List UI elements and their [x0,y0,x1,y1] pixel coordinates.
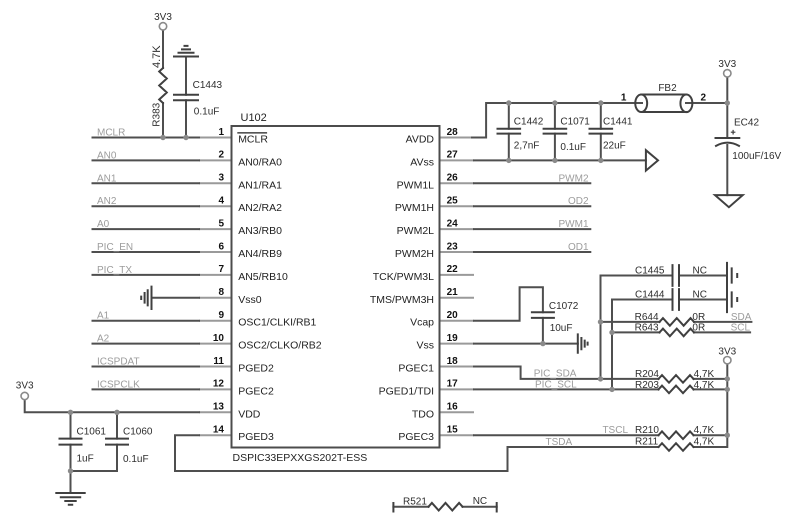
svg-text:AN0/RA0: AN0/RA0 [238,156,282,168]
svg-text:PGEC3: PGEC3 [398,431,434,443]
svg-text:15: 15 [447,425,459,436]
svg-text:16: 16 [447,402,459,413]
svg-text:C1445: C1445 [635,266,665,277]
svg-text:19: 19 [447,333,459,344]
svg-text:3V3: 3V3 [16,381,34,392]
svg-text:TDO: TDO [412,408,434,420]
svg-text:100uF/16V: 100uF/16V [732,151,781,162]
svg-text:Vcap: Vcap [410,317,434,329]
svg-text:11: 11 [213,356,224,367]
svg-text:PGED1/TDI: PGED1/TDI [379,385,434,397]
svg-text:EC42: EC42 [734,118,759,129]
svg-text:17: 17 [447,379,459,390]
svg-text:TCK/PWM3L: TCK/PWM3L [373,271,434,283]
svg-text:C1441: C1441 [603,117,633,128]
svg-text:MCLR: MCLR [238,134,268,146]
svg-text:28: 28 [447,127,459,138]
svg-text:PGED2: PGED2 [238,363,274,375]
svg-text:2: 2 [218,150,224,161]
svg-text:C1071: C1071 [560,117,590,128]
svg-text:AN5/RB10: AN5/RB10 [238,271,288,283]
svg-text:AVss: AVss [410,156,434,168]
svg-text:NC: NC [693,290,707,301]
svg-text:DSPIC33EPXXGS202T-ESS: DSPIC33EPXXGS202T-ESS [233,452,368,464]
svg-text:R643: R643 [635,322,659,333]
svg-text:TSCL: TSCL [602,425,628,436]
svg-text:PGED3: PGED3 [238,431,274,443]
svg-text:PWM1H: PWM1H [395,202,434,214]
svg-text:24: 24 [447,218,459,229]
svg-text:AN2: AN2 [97,196,117,207]
svg-text:C1060: C1060 [123,427,153,438]
svg-text:5: 5 [218,218,224,229]
svg-text:C1442: C1442 [514,117,544,128]
svg-text:0R: 0R [692,322,705,333]
svg-text:9: 9 [218,310,224,321]
svg-text:0.1uF: 0.1uF [123,454,149,465]
svg-text:0.1uF: 0.1uF [194,107,220,118]
svg-text:C1444: C1444 [635,290,665,301]
svg-text:FB2: FB2 [658,83,677,94]
svg-text:4,7K: 4,7K [694,437,715,448]
svg-text:6: 6 [218,241,224,252]
svg-text:4.7K: 4.7K [151,45,163,68]
svg-text:22: 22 [447,264,459,275]
svg-text:3: 3 [218,173,224,184]
svg-text:ICSPCLK: ICSPCLK [97,379,140,390]
svg-text:3V3: 3V3 [718,59,736,70]
svg-text:0.1uF: 0.1uF [560,142,586,153]
svg-text:TSDA: TSDA [546,437,573,448]
svg-text:AVDD: AVDD [406,134,435,146]
svg-text:1: 1 [621,93,627,104]
svg-text:AN2/RA2: AN2/RA2 [238,202,282,214]
svg-text:14: 14 [213,425,225,436]
svg-text:AN3/RB0: AN3/RB0 [238,225,282,237]
svg-text:12: 12 [213,379,225,390]
svg-text:AN1: AN1 [97,173,117,184]
svg-text:2,7nF: 2,7nF [514,141,540,152]
svg-text:4,7K: 4,7K [694,369,715,380]
svg-text:A1: A1 [97,311,110,322]
svg-text:10: 10 [213,333,225,344]
svg-text:MCLR: MCLR [97,128,125,139]
svg-text:25: 25 [447,196,459,207]
svg-text:21: 21 [447,287,459,298]
svg-text:AN4/RB9: AN4/RB9 [238,248,282,260]
svg-text:ICSPDAT: ICSPDAT [97,357,140,368]
svg-text:PWM2: PWM2 [559,173,589,184]
svg-text:Vss: Vss [416,340,434,352]
svg-text:3V3: 3V3 [718,347,736,358]
svg-text:23: 23 [447,241,459,252]
svg-text:R383: R383 [152,102,163,126]
svg-text:NC: NC [693,266,707,277]
svg-text:20: 20 [447,310,459,321]
svg-text:OSC1/CLKI/RB1: OSC1/CLKI/RB1 [238,317,316,329]
svg-text:AN0: AN0 [97,150,117,161]
svg-text:U102: U102 [241,112,267,124]
svg-text:OD1: OD1 [568,242,589,253]
svg-text:SCL: SCL [731,322,751,333]
svg-text:8: 8 [218,287,224,298]
svg-text:R211: R211 [635,437,659,448]
svg-text:0R: 0R [692,312,705,323]
svg-text:TMS/PWM3H: TMS/PWM3H [370,294,434,306]
svg-text:26: 26 [447,173,459,184]
svg-text:OD2: OD2 [568,196,589,207]
svg-text:3V3: 3V3 [154,12,172,23]
svg-text:10uF: 10uF [550,323,573,334]
svg-text:7: 7 [218,264,224,275]
svg-text:PWM1: PWM1 [559,219,589,230]
svg-text:C1443: C1443 [193,80,223,91]
svg-text:A0: A0 [97,219,110,230]
svg-text:PIC_SDA: PIC_SDA [534,368,577,379]
svg-text:PWM1L: PWM1L [397,179,435,191]
svg-text:18: 18 [447,356,459,367]
svg-text:A2: A2 [97,334,110,345]
svg-text:R203: R203 [635,380,659,391]
svg-text:R644: R644 [635,312,659,323]
svg-text:PGEC2: PGEC2 [238,385,274,397]
svg-text:R210: R210 [635,425,659,436]
svg-text:OSC2/CLKO/RB2: OSC2/CLKO/RB2 [238,340,322,352]
svg-text:1uF: 1uF [77,454,94,465]
svg-text:VDD: VDD [238,408,261,420]
svg-text:1: 1 [218,127,224,138]
svg-text:4,7K: 4,7K [694,425,715,436]
svg-text:PWM2L: PWM2L [397,225,435,237]
svg-text:4,7K: 4,7K [694,380,715,391]
svg-text:C1061: C1061 [77,427,107,438]
svg-text:PIC_EN: PIC_EN [97,242,133,253]
svg-text:R204: R204 [635,369,659,380]
svg-text:2: 2 [701,93,707,104]
svg-text:PIC_TX: PIC_TX [97,265,132,276]
svg-text:C1072: C1072 [549,301,579,312]
svg-text:4: 4 [218,196,224,207]
svg-text:13: 13 [213,402,225,413]
svg-text:SDA: SDA [731,312,752,323]
svg-text:PGEC1: PGEC1 [398,363,434,375]
svg-text:Vss0: Vss0 [238,294,262,306]
svg-text:27: 27 [447,150,459,161]
svg-text:NC: NC [473,496,487,507]
svg-text:22uF: 22uF [603,141,626,152]
svg-text:PWM2H: PWM2H [395,248,434,260]
svg-text:R521: R521 [403,497,427,508]
svg-text:PIC_SCL: PIC_SCL [535,379,577,390]
svg-text:AN1/RA1: AN1/RA1 [238,179,282,191]
